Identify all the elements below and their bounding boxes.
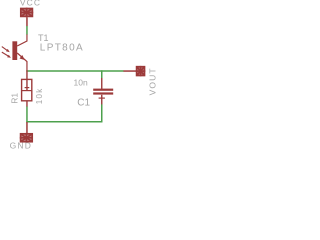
transistor Q1 base bar (12, 41, 17, 60)
power flag VOUT (136, 66, 146, 76)
power flag GND (20, 133, 33, 143)
transistor Q1 collector pin (17, 34, 27, 46)
VCC pin stub (26, 17, 28, 26)
capacitor C1 top plate (93, 89, 113, 91)
wire emitter node to VOUT (26, 70, 123, 72)
resistor R1 top pin (26, 70, 28, 91)
svg-text:GND: GND (10, 141, 32, 150)
resistor R1 pin end tick (25, 87, 30, 89)
capacitor C1 pin end tick (99, 97, 105, 99)
transistor Q1 emitter arrow (20, 55, 25, 60)
capacitor C1 bottom pin (101, 95, 103, 105)
svg-text:T1: T1 (38, 33, 49, 43)
resistor R1 bottom pin (26, 101, 28, 107)
power flag VCC (20, 8, 33, 18)
svg-text:VCC: VCC (20, 0, 41, 8)
wire capacitor to bottom wire (101, 104, 103, 122)
svg-text:R1: R1 (10, 93, 20, 104)
photo arrow 1 (2, 47, 10, 53)
svg-text:VOUT: VOUT (147, 67, 156, 95)
VOUT pin stub (123, 70, 136, 72)
transistor Q1 emitter pin (17, 53, 27, 71)
capacitor C1 top pin (101, 78, 103, 90)
wire junction to capacitor (101, 70, 103, 78)
GND pin stub (26, 122, 28, 133)
resistor R1 body (22, 79, 32, 100)
svg-text:10k: 10k (35, 87, 44, 104)
photo arrow 2 (2, 52, 11, 58)
resistor R1 crossline (21, 90, 32, 92)
capacitor C1 bottom plate (93, 92, 113, 94)
wire VCC to collector (26, 26, 28, 35)
svg-text:10n: 10n (74, 78, 88, 88)
svg-text:C1: C1 (77, 98, 90, 109)
svg-text:LPT80A: LPT80A (40, 43, 84, 54)
wire bottom horizontal (26, 121, 102, 123)
wire resistor to GND node (26, 107, 28, 123)
